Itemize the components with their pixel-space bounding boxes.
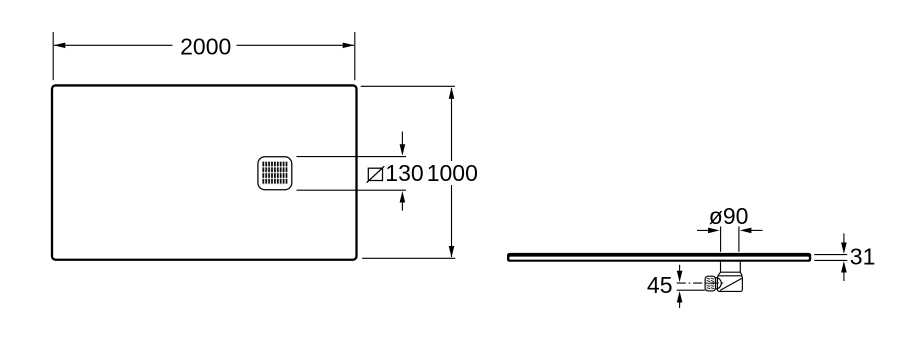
tray profile (section view) <box>507 253 811 262</box>
dimension ø90: left extension line <box>720 227 722 252</box>
dimension 1000: top extension line <box>361 85 455 87</box>
svg-text:130: 130 <box>385 160 423 186</box>
dimension 2000: left extension line <box>52 32 54 80</box>
dimension 2000: dimension line right segment with arrow <box>237 43 355 49</box>
dimension 130: upper arrow pointing down <box>400 132 406 156</box>
drain pipe <box>718 262 742 276</box>
dimension ø90: right arrow pointing left <box>740 228 763 234</box>
trap body <box>716 276 743 292</box>
svg-text:ø90: ø90 <box>709 203 749 229</box>
dimension 2000: right extension line <box>354 32 356 80</box>
dimension 2000: dimension line left segment with arrow <box>54 43 173 49</box>
svg-text:2000: 2000 <box>180 33 231 59</box>
dimension 45: upper arrow pointing down <box>677 265 683 283</box>
dimension 1000: dimension line lower segment with arrow <box>449 185 455 258</box>
dimension 31: lower arrow pointing up <box>841 261 847 281</box>
square symbol for 130 <box>367 166 385 183</box>
ribbed outlet connector <box>705 276 715 291</box>
shower tray outline (plan view) <box>52 85 357 259</box>
centerline (dash-dot) <box>677 282 726 284</box>
dimension 45: lower arrow pointing up <box>677 291 683 308</box>
drain grate <box>258 157 292 190</box>
svg-text:45: 45 <box>647 272 673 298</box>
svg-text:31: 31 <box>850 243 876 269</box>
dimension 130: top extension line <box>297 156 407 158</box>
dimension 45: bottom extension line <box>677 289 705 291</box>
dimension 31: bottom extension line <box>814 259 847 261</box>
dimension 1000: bottom extension line <box>362 257 455 259</box>
dimension 130: lower arrow pointing up <box>400 191 406 211</box>
dimension 130: bottom extension line <box>297 189 407 191</box>
svg-text:1000: 1000 <box>427 160 478 186</box>
dimension 31: top extension line <box>814 254 847 256</box>
dimension ø90: left arrow pointing right <box>697 228 720 234</box>
dimension ø90: right extension line <box>738 227 740 252</box>
dimension 1000: dimension line upper segment with arrow <box>449 87 455 161</box>
dimension 31: upper arrow pointing down <box>841 233 847 254</box>
